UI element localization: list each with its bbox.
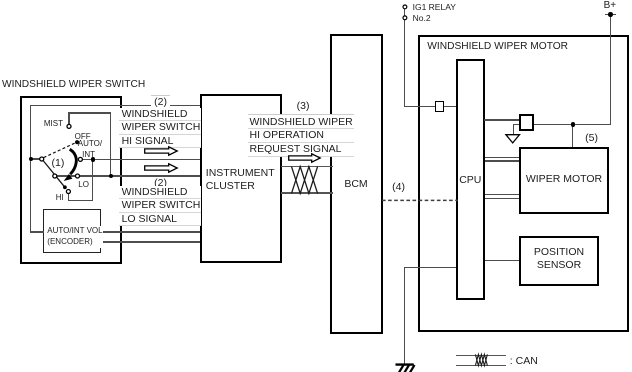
text OFF bbox=[75, 132, 91, 141]
text (1) bbox=[52, 157, 65, 169]
node (2) HI label bbox=[151, 95, 170, 108]
relay terminal circle No.2 bbox=[403, 16, 407, 20]
wire B+ vertical bbox=[610, 14, 611, 125]
wire HI contact drop bbox=[68, 193, 69, 201]
wire junction to wiper motor bbox=[572, 124, 573, 147]
label windshield wiper switch HI signal bbox=[119, 108, 201, 148]
text BCM bbox=[332, 178, 380, 190]
BCM box bbox=[330, 34, 383, 334]
wire MIST up bbox=[68, 112, 69, 125]
text instrument cluster bbox=[206, 167, 275, 193]
wire INT signal bbox=[81, 159, 200, 160]
relay terminal circle IG1 bbox=[403, 5, 407, 9]
rotation arrow arc bbox=[70, 149, 77, 174]
wire CPU to position sensor bbox=[485, 260, 520, 261]
windshield wiper switch box bbox=[20, 96, 122, 264]
title WINDSHIELD WIPER MOTOR bbox=[427, 41, 568, 52]
junction dot INT/HI bbox=[91, 157, 95, 161]
signal arrow HI bbox=[144, 146, 178, 156]
text CPU bbox=[456, 174, 485, 186]
junction dot common/pivot bbox=[29, 157, 33, 161]
wire encoder signal 2 bbox=[101, 241, 200, 242]
wiper motor box M1 bbox=[519, 147, 608, 214]
wire CPU to motor pair2 a bbox=[485, 194, 520, 195]
text HI bbox=[56, 193, 64, 202]
wire MIST horizontal bbox=[68, 112, 111, 113]
rotation arrowhead bbox=[64, 174, 73, 181]
node (2) LO label bbox=[151, 177, 170, 190]
wire CAN legend bottom bbox=[456, 365, 507, 366]
arrow to ground (below connector) bbox=[505, 134, 521, 144]
text : CAN bbox=[510, 355, 538, 367]
text AUTO/ bbox=[78, 139, 102, 148]
title WINDSHIELD WIPER SWITCH bbox=[2, 79, 145, 90]
connector square B+ line bbox=[519, 114, 534, 131]
wire IG1 relay to CPU bbox=[404, 106, 456, 107]
text IG1 RELAY bbox=[413, 2, 456, 12]
wire common to encoder bbox=[30, 231, 44, 232]
wire CPU to motor pair1 b bbox=[485, 160, 520, 161]
wire CPU to motor pair2 b bbox=[485, 198, 520, 199]
node (3) label bbox=[294, 100, 313, 113]
wire encoder signal 1 bbox=[101, 231, 200, 232]
CPU box U1 bbox=[456, 59, 485, 299]
label windshield wiper switch LO signal bbox=[119, 186, 201, 226]
wire HI riser bbox=[92, 159, 93, 201]
label windshield wiper HI operation request signal bbox=[248, 114, 354, 157]
contact AUTO/INT bbox=[78, 157, 82, 161]
contact pivot bbox=[40, 157, 44, 161]
wire ground vertical bbox=[404, 267, 405, 366]
contact OFF dot bbox=[75, 140, 79, 144]
junction dot B+ feed bbox=[571, 122, 575, 126]
ground symbol bbox=[394, 363, 417, 372]
wire CAN legend top bbox=[456, 355, 507, 356]
contact HI bbox=[66, 190, 70, 194]
connector square IG1 bbox=[435, 101, 445, 112]
text LO bbox=[78, 180, 89, 189]
encoder box bbox=[43, 209, 100, 252]
CAN legend twisted pair bbox=[475, 354, 488, 366]
contact MIST bbox=[67, 124, 71, 128]
text POSITION SENSOR bbox=[519, 246, 598, 273]
lever dashed (OFF position) bbox=[44, 143, 75, 157]
wire dashed BCM to CPU (4) bbox=[382, 199, 458, 202]
signal arrow LO bbox=[144, 163, 178, 173]
wire arrow branch horizontal bbox=[513, 124, 520, 125]
wire CPU to connector square bbox=[484, 119, 519, 120]
windshield wiper motor box bbox=[418, 35, 630, 332]
text AUTO/INT VOL (ENCODER) bbox=[47, 226, 102, 248]
wire common vertical bbox=[30, 105, 31, 232]
text MIST bbox=[44, 119, 63, 128]
lever solid bbox=[43, 160, 65, 187]
CAN twisted pair symbol bbox=[291, 166, 319, 194]
text WIPER MOTOR bbox=[519, 173, 608, 185]
node (5) label bbox=[582, 132, 602, 145]
wire common top (switch to cluster) bbox=[30, 105, 200, 106]
wire pivot stub bbox=[30, 158, 40, 159]
text B+ bbox=[604, 0, 617, 11]
wire ground horizontal bbox=[404, 267, 456, 268]
lever tip dot bbox=[63, 185, 67, 189]
wire LO signal bbox=[55, 175, 200, 176]
node (4) label bbox=[389, 180, 409, 195]
text INT bbox=[82, 150, 95, 159]
junction dot LO/MIST bbox=[109, 174, 113, 178]
position sensor box bbox=[519, 236, 598, 286]
text No.2 bbox=[413, 13, 431, 23]
terminal dot B+ bbox=[608, 12, 613, 17]
wire CAN bottom line bbox=[281, 192, 333, 193]
contact lever ring bbox=[53, 174, 57, 178]
instrument cluster box bbox=[200, 94, 282, 263]
signal arrow HI request bbox=[288, 153, 321, 163]
wire HI horizontal bbox=[68, 200, 94, 201]
wire CAN top line bbox=[281, 166, 333, 167]
wire B+ terminal tick bbox=[605, 14, 616, 15]
wire IG1 relay vertical bbox=[404, 9, 405, 108]
contact LO bbox=[76, 174, 80, 178]
wire MIST down to LO bbox=[110, 112, 111, 176]
wire connector square to B+ bbox=[534, 124, 610, 125]
wire arrow branch vertical bbox=[513, 124, 514, 135]
wire CPU to motor pair1 a bbox=[485, 157, 520, 158]
